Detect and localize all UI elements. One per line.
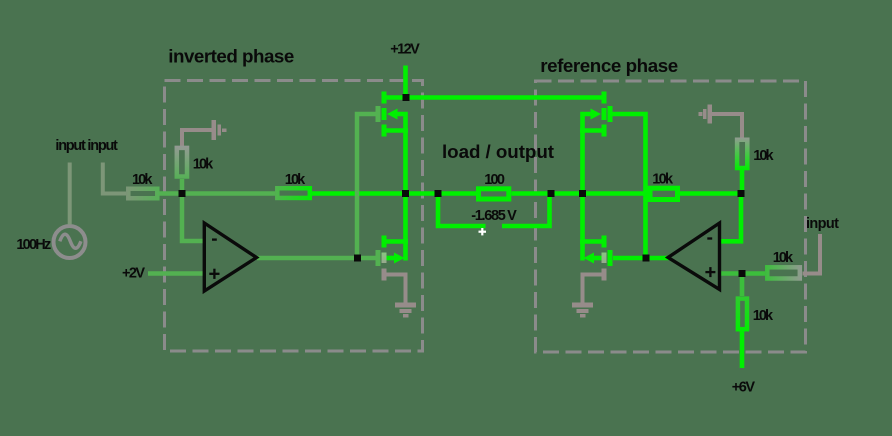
svg-text:100Hz: 100Hz	[16, 237, 51, 253]
svg-text:input input: input input	[55, 138, 118, 154]
svg-text:10k: 10k	[132, 172, 153, 188]
svg-text:10k: 10k	[773, 250, 794, 266]
svg-text:input: input	[806, 216, 839, 232]
svg-text:+2V: +2V	[122, 265, 145, 281]
svg-text:reference phase: reference phase	[540, 55, 678, 76]
svg-text:10k: 10k	[193, 156, 214, 172]
svg-text:+6V: +6V	[732, 380, 756, 396]
svg-text:10k: 10k	[285, 172, 306, 188]
svg-text:load / output: load / output	[442, 141, 555, 162]
svg-text:inverted phase: inverted phase	[168, 45, 294, 66]
svg-text:10k: 10k	[753, 148, 774, 164]
svg-text:100: 100	[484, 172, 505, 188]
svg-text:10k: 10k	[652, 172, 674, 188]
svg-text:10k: 10k	[753, 308, 774, 324]
svg-text:+12V: +12V	[390, 42, 420, 58]
svg-text:-1.685 V: -1.685 V	[471, 208, 517, 224]
